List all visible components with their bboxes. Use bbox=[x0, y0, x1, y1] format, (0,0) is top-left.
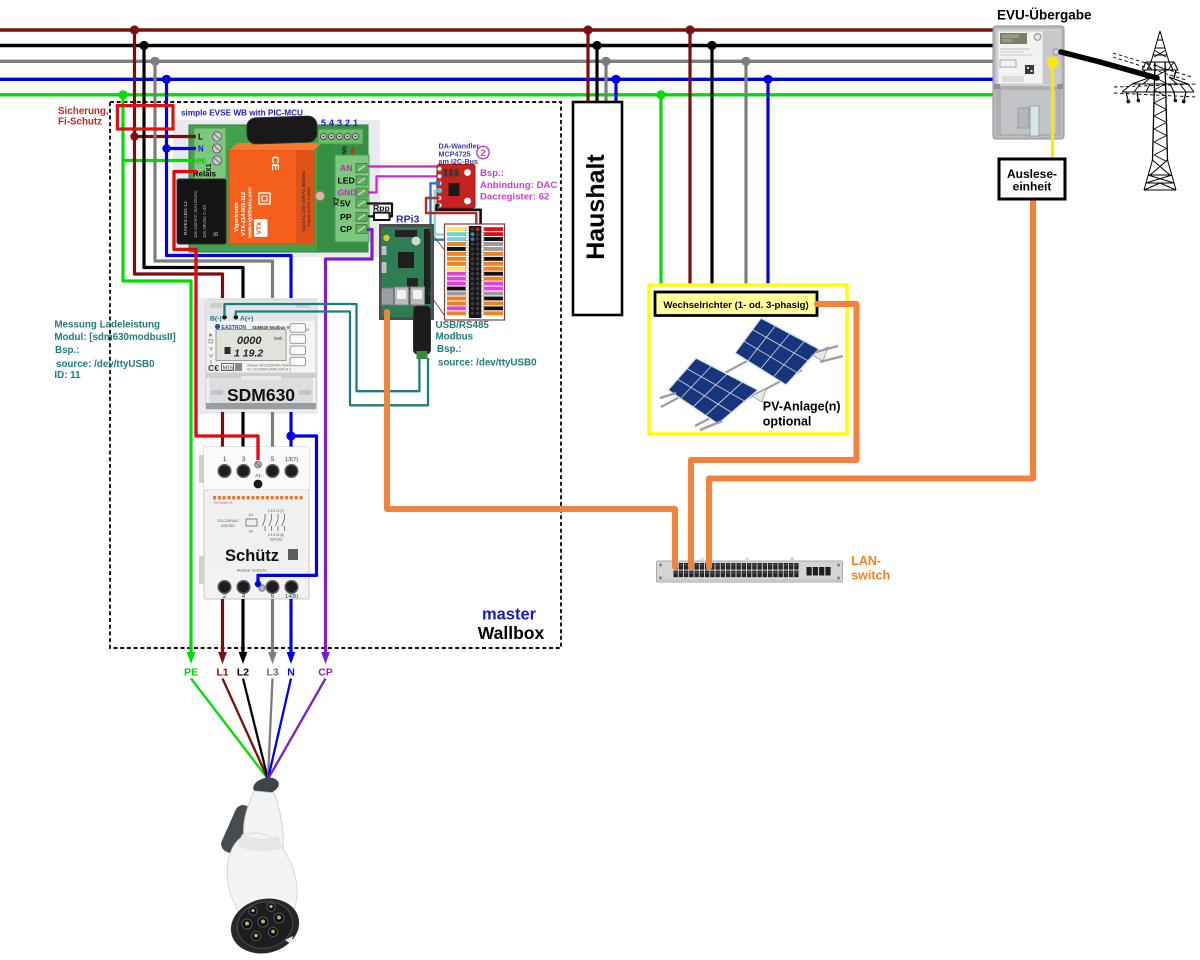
svg-text:GND: GND bbox=[338, 188, 357, 198]
svg-text:L2: L2 bbox=[237, 667, 249, 679]
wire CP bbox=[326, 230, 373, 653]
node L1 WR junction bbox=[685, 25, 694, 34]
svg-text:12: 12 bbox=[700, 557, 704, 561]
Ausleseeinheit box bbox=[999, 159, 1065, 199]
wire N to Wechselrichter bbox=[766, 79, 769, 294]
svg-text:simple EVSE WB with PIC-MCU: simple EVSE WB with PIC-MCU bbox=[181, 109, 303, 118]
power module VTX-214-001-112 bbox=[229, 143, 322, 244]
utility meter EVU photo bbox=[993, 26, 1064, 139]
svg-text:SDM630: SDM630 bbox=[227, 385, 295, 405]
wire N contactor to boundary bbox=[289, 599, 292, 653]
svg-text:L3: L3 bbox=[266, 667, 278, 679]
svg-text:source: /dev/ttyUSB0: source: /dev/ttyUSB0 bbox=[56, 359, 155, 370]
svg-text:4: 4 bbox=[329, 118, 334, 128]
wire L1 to Wechselrichter bbox=[688, 30, 691, 294]
svg-text:63A (3h): 63A (3h) bbox=[270, 538, 282, 542]
arrow N bbox=[287, 652, 296, 664]
node L3 WR junction bbox=[741, 57, 750, 66]
cable L2 to plug bbox=[243, 679, 268, 780]
svg-text:Tx: Tx bbox=[333, 146, 339, 152]
wire L2 bus bbox=[0, 44, 993, 47]
svg-text:USB/RS485: USB/RS485 bbox=[436, 320, 490, 331]
node L1 Haushalt junction bbox=[583, 25, 592, 34]
LAN switch photo bbox=[657, 557, 843, 582]
svg-text:Bsp.:: Bsp.: bbox=[437, 344, 462, 355]
svg-text:Anbindung: DAC: Anbindung: DAC bbox=[480, 180, 557, 191]
svg-text:kWh: kWh bbox=[274, 336, 283, 341]
svg-text:Wallbox: Wallbox bbox=[478, 623, 545, 643]
svg-text:L: L bbox=[198, 133, 203, 142]
service cable to tower bbox=[1061, 52, 1157, 78]
cable PE to plug bbox=[191, 679, 268, 780]
svg-text:switch: switch bbox=[851, 569, 890, 583]
Haushalt box bbox=[573, 102, 622, 315]
inverter label box Wechselrichter bbox=[655, 292, 817, 316]
resistor Rpp bbox=[374, 213, 390, 220]
svg-text:N: N bbox=[287, 667, 295, 679]
svg-text:PV-Anlage(n): PV-Anlage(n) bbox=[763, 400, 841, 414]
label DA-Wandler MCP4725 bbox=[439, 142, 480, 166]
svg-text:RPi3: RPi3 bbox=[396, 214, 420, 226]
terminal X1 bbox=[194, 128, 226, 180]
svg-text:AN: AN bbox=[340, 163, 352, 173]
LAN cable Ausleseeinheit to switch bbox=[709, 199, 1033, 567]
label Bsp Anbindung DAC bbox=[480, 168, 557, 203]
svg-text:LED: LED bbox=[338, 176, 355, 186]
wire L2 SDM to contactor bbox=[241, 412, 244, 458]
svg-text:A2: A2 bbox=[249, 530, 253, 534]
svg-text:A(+): A(+) bbox=[240, 316, 253, 323]
wire N drop to wallbox bbox=[167, 79, 292, 302]
wire L1 bus bbox=[0, 28, 993, 32]
wire L3 to Wechselrichter bbox=[744, 61, 747, 294]
wire N to contactor A2 bbox=[258, 436, 317, 584]
relay K1 bbox=[177, 179, 226, 244]
energy meter SDM630 photo bbox=[199, 298, 318, 414]
svg-text:Output 12VDC 0.085A: Output 12VDC 0.085A bbox=[306, 187, 311, 227]
svg-text:220VDC: 220VDC bbox=[221, 524, 236, 528]
contactor Schütz photo bbox=[199, 447, 309, 600]
svg-text:B: B bbox=[214, 232, 220, 236]
svg-text:N: N bbox=[198, 145, 204, 154]
svg-text:2: 2 bbox=[480, 148, 485, 159]
svg-text:CP: CP bbox=[340, 224, 352, 234]
EV charging plug photo bbox=[217, 775, 308, 960]
svg-text:RAYEX LEG-12: RAYEX LEG-12 bbox=[183, 201, 189, 235]
node N junction at contactor bbox=[286, 431, 295, 440]
svg-text:Vigortronix: Vigortronix bbox=[234, 201, 240, 232]
svg-text:0000: 0000 bbox=[237, 335, 262, 347]
svg-text:2 4 6 14 (8): 2 4 6 14 (8) bbox=[268, 533, 284, 537]
svg-text:C€: C€ bbox=[208, 363, 219, 373]
svg-text:Dacregister: 62: Dacregister: 62 bbox=[480, 192, 549, 203]
svg-text:master: master bbox=[482, 606, 537, 624]
wire probe to Ausleseeinheit bbox=[1051, 63, 1054, 160]
svg-text:24: 24 bbox=[745, 557, 749, 561]
svg-text:1: 1 bbox=[353, 118, 358, 128]
fuse/RCD box Sicherung bbox=[117, 106, 173, 129]
svg-text:optional: optional bbox=[763, 414, 812, 428]
svg-text:Cl.1 S0:1000imp/kWh SW V1.3: Cl.1 S0:1000imp/kWh SW V1.3 bbox=[247, 368, 292, 372]
svg-text:Rx: Rx bbox=[325, 146, 331, 153]
leader line GPIO top bbox=[429, 230, 446, 252]
DAC module U2 MCP4725 bbox=[436, 165, 476, 209]
svg-text:3: 3 bbox=[337, 118, 342, 128]
wire L3 to Haushalt bbox=[604, 61, 607, 104]
node L1 bus junction bbox=[130, 25, 139, 34]
svg-text:PE: PE bbox=[197, 157, 207, 166]
svg-text:CE: CE bbox=[269, 156, 281, 171]
wire L3 contactor to boundary bbox=[271, 599, 274, 653]
node N X1 branch bbox=[162, 144, 170, 152]
transmission tower bbox=[1113, 31, 1196, 190]
node N bus junction bbox=[162, 75, 171, 84]
wire DAC GND black bbox=[436, 205, 480, 239]
label USB/RS485 Modbus bbox=[436, 320, 538, 368]
svg-text:M16: M16 bbox=[223, 365, 233, 371]
cable L3 to plug bbox=[268, 679, 273, 780]
wire RS485 A(+) bbox=[236, 312, 428, 406]
wire 5V-Rpp-PP bbox=[367, 204, 392, 217]
svg-text:VTX-214-001-112: VTX-214-001-112 bbox=[241, 192, 247, 236]
wire RS485 B(-) bbox=[225, 304, 420, 391]
node PE WR junction bbox=[656, 90, 665, 99]
svg-text:2: 2 bbox=[345, 118, 350, 128]
master Wallbox dashed enclosure bbox=[110, 102, 561, 648]
wire L3 bus bbox=[0, 60, 993, 63]
svg-text:Bsp.:: Bsp.: bbox=[480, 168, 504, 179]
svg-text:Modular contactor: Modular contactor bbox=[237, 569, 268, 573]
svg-text:B(-): B(-) bbox=[210, 316, 222, 323]
node L3 Haushalt junction bbox=[601, 57, 610, 66]
svg-text:source: /dev/ttyUSB0: source: /dev/ttyUSB0 bbox=[438, 357, 537, 368]
label Messung Ladeleistung block bbox=[54, 320, 175, 382]
cable N to plug bbox=[268, 679, 291, 780]
wire DAC 5V red bbox=[426, 198, 476, 229]
svg-text:Schütz: Schütz bbox=[225, 547, 279, 565]
cable CP to plug bbox=[268, 679, 326, 780]
svg-text:Sicherung,: Sicherung, bbox=[58, 106, 109, 117]
node N WR junction bbox=[763, 75, 772, 84]
LAN cable inverter to switch bbox=[691, 304, 857, 567]
svg-text:PP: PP bbox=[340, 212, 352, 222]
arrow PE bbox=[187, 652, 196, 664]
svg-text:220-230VAC: 220-230VAC bbox=[217, 519, 239, 523]
svg-text:VTX: VTX bbox=[256, 221, 263, 234]
svg-text:1 19.2: 1 19.2 bbox=[234, 348, 263, 360]
svg-text:ID: 11: ID: 11 bbox=[54, 370, 81, 381]
svg-text:X2: X2 bbox=[334, 197, 341, 206]
cable L1 to plug bbox=[223, 679, 269, 780]
svg-text:1 3 5 13 (7): 1 3 5 13 (7) bbox=[268, 509, 284, 513]
svg-text:Homepage-link: Homepage-link bbox=[214, 501, 233, 505]
node L2 Haushalt junction bbox=[592, 41, 601, 50]
svg-text:Messung Ladeleistung: Messung Ladeleistung bbox=[54, 320, 160, 331]
node L1 X1 branch bbox=[130, 132, 138, 140]
wire PE to Wechselrichter bbox=[659, 95, 662, 294]
svg-text:PE: PE bbox=[184, 667, 198, 679]
wire L2 drop to wallbox bbox=[144, 46, 243, 303]
svg-text:Modul: [sdm630modbusII]: Modul: [sdm630modbusII] bbox=[54, 332, 175, 343]
wire L3 SDM to contactor bbox=[271, 412, 274, 458]
wire L3 drop to wallbox bbox=[155, 61, 273, 302]
leader line GPIO bottom bbox=[429, 293, 446, 318]
terminal X2 bbox=[334, 155, 370, 242]
svg-text:5: 5 bbox=[321, 118, 326, 128]
arrow L1 bbox=[218, 652, 227, 664]
wire N to Haushalt bbox=[614, 79, 617, 104]
node L2 WR junction bbox=[707, 41, 716, 50]
Raspberry Pi 3 photo bbox=[379, 224, 434, 320]
capacitor C1 bbox=[247, 116, 318, 144]
svg-text:L1: L1 bbox=[216, 667, 228, 679]
node L2 bus junction bbox=[139, 41, 148, 50]
wire GND to DAC bbox=[368, 176, 437, 192]
LAN cable RPi to switch bbox=[387, 312, 675, 567]
optical probe yellow bbox=[1047, 57, 1059, 69]
svg-text:LAN-: LAN- bbox=[851, 554, 881, 568]
GPIO pinout chart bbox=[445, 224, 505, 320]
wire I2C SCL cyan bbox=[435, 191, 449, 235]
PV yellow enclosure bbox=[649, 285, 847, 434]
wire N bus bbox=[0, 78, 993, 81]
arrow L3 bbox=[268, 652, 277, 664]
svg-text:Fi-Schutz: Fi-Schutz bbox=[58, 117, 102, 128]
arrow L2 bbox=[239, 652, 248, 664]
wire AN to DAC bbox=[368, 165, 437, 167]
EVSE controller board photo bbox=[173, 120, 380, 257]
svg-text:10A 28VDC C US: 10A 28VDC C US bbox=[202, 205, 207, 238]
wire relay to contactor A1 bbox=[174, 172, 258, 461]
svg-text:Haushalt: Haushalt bbox=[582, 154, 610, 260]
wire I2C SDA blue bbox=[431, 183, 450, 239]
svg-text:Bsp.:: Bsp.: bbox=[55, 345, 80, 356]
svg-text:einheit: einheit bbox=[1013, 180, 1052, 194]
svg-text:13(7): 13(7) bbox=[285, 457, 298, 463]
svg-text:5V: 5V bbox=[340, 199, 351, 209]
svg-text:48: 48 bbox=[790, 557, 794, 561]
svg-text:A1: A1 bbox=[255, 473, 261, 479]
wire L1 to Haushalt bbox=[586, 30, 589, 104]
svg-text:Wechselrichter (1- od. 3-phasi: Wechselrichter (1- od. 3-phasig) bbox=[663, 300, 808, 311]
svg-text:10A 240VAC 15A125VAC: 10A 240VAC 15A125VAC bbox=[193, 190, 198, 238]
wire L2 contactor to boundary bbox=[241, 599, 244, 653]
PV panel 2 bbox=[660, 358, 766, 430]
callout circled 2 bbox=[477, 146, 489, 158]
node L3 bus junction bbox=[150, 57, 159, 66]
svg-text:CP: CP bbox=[318, 667, 333, 679]
svg-text:Rpp: Rpp bbox=[373, 203, 390, 213]
node N Haushalt junction bbox=[611, 75, 620, 84]
wire L1 contactor to boundary bbox=[221, 599, 224, 653]
wire L2 to Wechselrichter bbox=[710, 46, 713, 295]
svg-text:EVU-Übergabe: EVU-Übergabe bbox=[997, 7, 1092, 22]
svg-text:A1: A1 bbox=[249, 513, 253, 517]
USB RS485 adapter bbox=[414, 306, 431, 359]
wire N SDM to contactor bbox=[289, 412, 292, 458]
wire PE drop to wallbox bbox=[123, 95, 196, 652]
node PE bus junction bbox=[118, 90, 127, 99]
svg-text:Modbus: Modbus bbox=[436, 332, 474, 343]
header J1 pins 5-1 bbox=[318, 118, 363, 158]
wire L1 drop to wallbox bbox=[135, 30, 223, 302]
wire L1 SDM to contactor bbox=[221, 412, 224, 458]
svg-text:+5V: +5V bbox=[349, 146, 355, 156]
wire PE bus bbox=[0, 93, 993, 96]
PV panel 1 bbox=[661, 318, 843, 426]
wire L2 to Haushalt bbox=[595, 46, 598, 105]
arrow CP bbox=[321, 652, 330, 664]
svg-text:www.vigortronix.com: www.vigortronix.com bbox=[248, 187, 254, 239]
